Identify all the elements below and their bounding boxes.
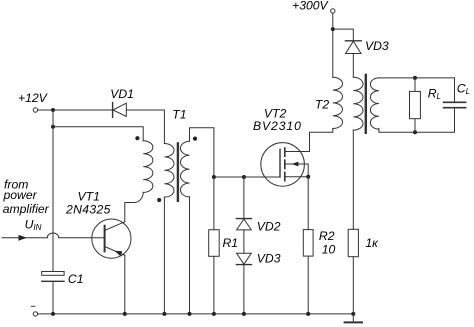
ground: [345, 314, 362, 323]
wire T1 secondary top over to R1 node: [190, 128, 214, 177]
transformer T1: [135, 136, 197, 202]
svg-text:VD2: VD2: [257, 220, 281, 234]
svg-text:+300V: +300V: [292, 0, 329, 13]
wire VT1 emitter down to rail: [124, 255, 126, 314]
terminal +300V: [331, 9, 335, 13]
svg-text:amplifier: amplifier: [3, 202, 50, 216]
wire +300V down to T2: [332, 13, 334, 77]
minus mark: [32, 305, 35, 307]
wire T2 middle winding bottom down to 1k: [352, 130, 354, 229]
drain stub: [285, 151, 310, 153]
node junction R2 bottom: [306, 312, 310, 316]
resistor RL: [410, 78, 421, 132]
T2 core: [365, 75, 367, 133]
wire VT2 source down to R2: [307, 177, 309, 230]
terminal bottom left: [33, 312, 37, 316]
transformer T2: [333, 75, 379, 133]
node junction VD2 top: [242, 175, 246, 179]
svg-text:T1: T1: [172, 108, 186, 122]
T1 core: [177, 143, 179, 200]
polarity dot T1 middle bottom: [157, 198, 161, 202]
svg-text:+12V: +12V: [18, 91, 49, 105]
svg-text:1к: 1к: [365, 236, 379, 250]
svg-text:VD1: VD1: [110, 87, 134, 101]
wire left vertical bus x=53: [52, 110, 54, 272]
diode VD3 (top): [345, 41, 361, 54]
transistor VT2 (MOSFET): [261, 143, 310, 187]
svg-text:BV2310: BV2310: [253, 119, 302, 133]
T2 secondary winding (right): [370, 78, 379, 129]
resistor R1: [209, 177, 220, 314]
wire VD1 to T1 middle winding top: [126, 110, 164, 144]
capacitor CL: [444, 78, 466, 132]
wire second +12V rail to T1 left winding top: [53, 127, 143, 141]
wire hop over bus: [47, 233, 59, 238]
wire T2 secondary bottom to load: [379, 128, 455, 132]
svg-text:T2: T2: [315, 98, 329, 112]
diode VD2: [236, 177, 251, 230]
node junction C1 bottom: [51, 312, 55, 316]
node junction R1 top: [212, 175, 216, 179]
arrow input signal: [19, 235, 27, 241]
node junction RL bottom: [413, 130, 417, 134]
svg-text:VD3: VD3: [257, 251, 281, 265]
wire +12V rail to VD1: [38, 109, 112, 111]
node junction VT1 emitter: [123, 312, 127, 316]
node junction T1 secondary bottom: [188, 312, 192, 316]
wire T2 secondary top to load: [379, 77, 455, 79]
wire T1 middle winding bottom to rail: [163, 197, 165, 314]
wire VD3 to T2 middle winding: [352, 54, 354, 78]
diode VD3 (lower): [236, 253, 251, 314]
svg-text:10: 10: [322, 242, 336, 256]
T1 primary winding a (left): [143, 141, 153, 193]
svg-text:power: power: [3, 188, 38, 202]
node junction T1 middle bottom: [162, 312, 166, 316]
svg-text:VT1: VT1: [78, 190, 100, 204]
svg-text:R2: R2: [319, 229, 335, 243]
wire branch to VD3 top: [333, 29, 354, 41]
node junction R1 bottom: [212, 312, 216, 316]
T1 primary winding b (middle): [164, 144, 174, 198]
wire VT2 drain to T2 primary bottom: [310, 129, 333, 152]
transistor VT1: [92, 219, 131, 258]
wire gate line from R1 node to VT2 gate: [214, 176, 280, 178]
terminal +12V: [33, 108, 37, 112]
wire VT1 collector up to T1 left winding bottom: [125, 192, 143, 221]
svg-text:R1: R1: [223, 236, 239, 250]
wire hop to VT1 base: [59, 237, 104, 239]
source stub: [285, 176, 308, 178]
node junction at 53,126.7: [51, 125, 55, 129]
bulk stub with arrow: [285, 163, 308, 165]
polarity dot T1 right: [193, 137, 197, 141]
svg-text:VD3: VD3: [365, 39, 389, 53]
wire T1 secondary bottom to rail: [189, 197, 191, 314]
wire ground rail: [38, 313, 353, 315]
resistor 1k: [348, 229, 358, 314]
capacitor C1: [42, 272, 64, 282]
node junction VD3 bottom: [242, 312, 246, 316]
resistor R2: [303, 230, 313, 314]
polarity dot T1 left: [135, 136, 139, 140]
channel segments: [284, 148, 286, 156]
T2 primary winding a (left): [333, 77, 343, 128]
wire input from amplifier: [2, 237, 47, 239]
T1 secondary winding (right): [181, 141, 190, 197]
T2 primary winding b (middle): [353, 77, 363, 130]
node junction RL top: [413, 76, 417, 80]
node junction at 332.8,29.1: [331, 27, 335, 31]
svg-text:C1: C1: [68, 272, 84, 286]
node junction at 53,110: [51, 108, 55, 112]
gate bar: [279, 149, 281, 177]
node junction ground: [351, 312, 355, 316]
node junction VT2 source: [306, 175, 310, 179]
wire VD2 to VD3: [243, 230, 245, 253]
diode VD1: [113, 103, 127, 118]
svg-text:2N4325: 2N4325: [65, 203, 111, 217]
